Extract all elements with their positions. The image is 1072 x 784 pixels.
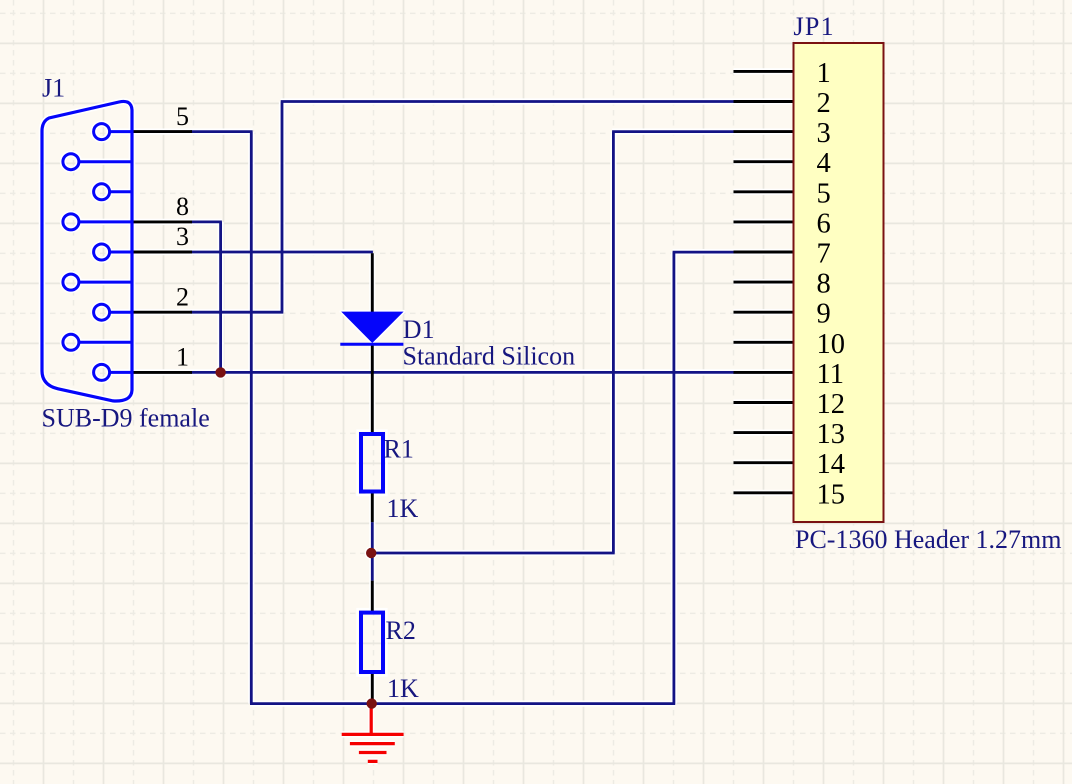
svg-text:R1: R1	[384, 435, 414, 464]
svg-text:1: 1	[817, 58, 831, 89]
svg-text:4: 4	[817, 148, 831, 179]
svg-text:8: 8	[176, 192, 189, 221]
svg-text:3: 3	[176, 222, 189, 251]
svg-text:7: 7	[817, 239, 831, 270]
svg-text:15: 15	[817, 479, 846, 510]
svg-text:2: 2	[817, 88, 831, 119]
svg-text:SUB-D9 female: SUB-D9 female	[42, 404, 210, 433]
svg-text:1: 1	[176, 343, 189, 372]
svg-text:9: 9	[817, 299, 831, 330]
svg-text:PC-1360 Header 1.27mm: PC-1360 Header 1.27mm	[795, 525, 1061, 554]
svg-text:12: 12	[817, 389, 846, 420]
svg-text:Standard Silicon: Standard Silicon	[403, 342, 576, 371]
svg-text:8: 8	[817, 269, 831, 300]
svg-text:11: 11	[817, 359, 844, 390]
svg-text:1K: 1K	[387, 494, 419, 523]
svg-text:5: 5	[817, 178, 831, 209]
svg-text:5: 5	[176, 102, 189, 131]
svg-text:2: 2	[176, 282, 189, 311]
svg-text:1K: 1K	[387, 674, 419, 703]
svg-text:10: 10	[817, 329, 846, 360]
svg-text:13: 13	[817, 419, 846, 450]
svg-text:R2: R2	[386, 616, 416, 645]
svg-text:JP1: JP1	[794, 12, 835, 41]
svg-text:14: 14	[817, 449, 846, 480]
svg-text:3: 3	[817, 118, 831, 149]
svg-text:D1: D1	[403, 315, 435, 344]
svg-text:J1: J1	[42, 74, 65, 103]
svg-text:6: 6	[817, 208, 831, 239]
